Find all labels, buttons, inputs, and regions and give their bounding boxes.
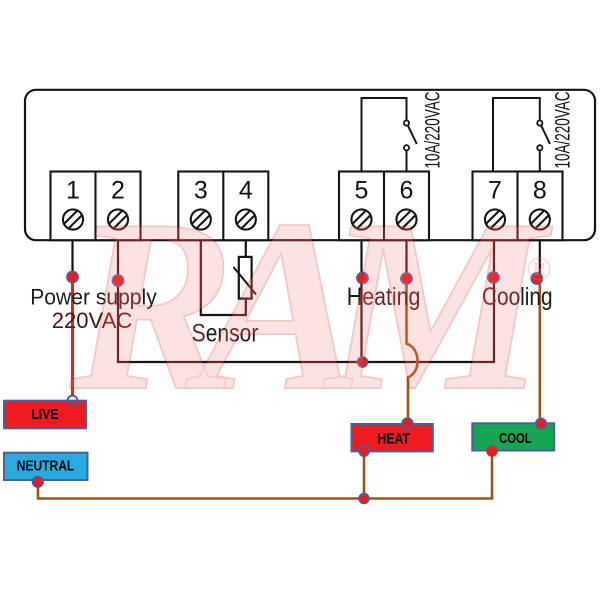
relay contact K2 (terminals 7-8) xyxy=(493,98,550,172)
svg-text:8: 8 xyxy=(533,177,547,205)
connector on LIVE box xyxy=(68,396,78,406)
screw terminal 4 xyxy=(236,209,256,229)
LIVE box xyxy=(4,401,86,429)
brown wire terminal 6 to HEAT (with hop over bus) xyxy=(407,278,418,422)
svg-text:RAM: RAM xyxy=(69,169,553,442)
terminal block 7-8 xyxy=(473,172,563,241)
connector dot T5 xyxy=(357,272,368,283)
watermark RAM (screen layer) xyxy=(69,169,553,442)
wire: terminal 6 stub xyxy=(405,240,407,278)
connector dot T8 xyxy=(531,273,542,284)
svg-text:10A/220VAC: 10A/220VAC xyxy=(552,92,575,169)
connector on COOL box bottom xyxy=(487,446,497,456)
NEUTRAL box xyxy=(4,453,88,480)
screw terminal 3 xyxy=(191,209,211,229)
connector on COOL box top xyxy=(536,418,546,428)
connector on HEAT box top xyxy=(402,418,412,428)
HEAT box xyxy=(352,424,433,451)
svg-text:®: ® xyxy=(526,251,551,288)
connector dot T2 xyxy=(112,275,123,286)
COOL box xyxy=(472,423,554,450)
controller body U1 xyxy=(25,90,595,240)
sensor loop wiring xyxy=(201,240,246,315)
connector on NEUTRAL box xyxy=(33,477,44,488)
brown wire HEAT bottom to neutral bus xyxy=(363,452,366,499)
wire: terminal 2 down + live bus to terminal 7 xyxy=(118,240,494,362)
svg-text:10A/220VAC: 10A/220VAC xyxy=(422,92,445,169)
svg-text:NEUTRAL: NEUTRAL xyxy=(17,458,75,475)
red live wire terminal1 to LIVE xyxy=(71,277,74,397)
connector dot T6 xyxy=(401,273,412,284)
screw terminal 6 xyxy=(396,209,416,229)
screw terminal 8 xyxy=(530,209,550,229)
terminal block 5-6 xyxy=(339,172,429,241)
screw terminal 7 xyxy=(485,209,505,229)
junction dot on neutral bus xyxy=(359,494,369,504)
terminal block 1-2 xyxy=(51,172,141,241)
connector dot T7 xyxy=(488,272,499,283)
svg-text:LIVE: LIVE xyxy=(32,406,59,423)
connector on HEAT box bottom xyxy=(359,446,369,456)
brown neutral bus NEUTRAL to COOL xyxy=(38,453,492,499)
wire: terminal 1 stub xyxy=(71,240,73,277)
watermark RAM (multiply layer) xyxy=(69,169,553,442)
brown wire terminal 8 to COOL xyxy=(538,278,541,422)
wire: terminal 8 stub xyxy=(539,240,541,278)
screw terminal 2 xyxy=(108,209,128,229)
wire: terminal 5 down to bus xyxy=(360,240,362,362)
thermistor RT1 xyxy=(239,257,252,299)
screw terminal 1 xyxy=(63,209,83,229)
relay contact K1 (terminals 5-6) xyxy=(362,98,417,172)
screw terminal 5 xyxy=(351,209,371,229)
connector dot T1 xyxy=(67,271,78,282)
junction dot on live bus at T5 xyxy=(358,357,368,367)
terminal block 3-4 xyxy=(178,172,268,241)
